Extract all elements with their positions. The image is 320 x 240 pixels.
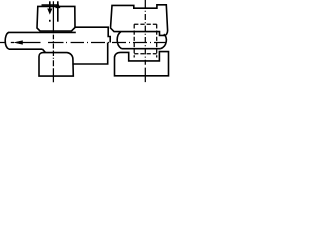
right figure: upper block (111, 5, 168, 36)
hidden rectangle (original bar outline) (134, 24, 157, 54)
upper die (left figure) (37, 6, 75, 31)
lead: lower die to right figure (72, 43, 107, 65)
down arrow head (48, 9, 52, 14)
workpiece bar top edge (8, 31, 76, 33)
right figure: vertical centerline (144, 0, 146, 82)
down arrow (49, 1, 51, 9)
barrel right curve (160, 34, 166, 49)
bar bottom edge (9, 48, 43, 50)
up arrow line (57, 1, 59, 21)
axis centerline with left arrow (0, 42, 5, 44)
axis dash-dot continuation (11, 42, 166, 44)
hidden rect right side (156, 24, 158, 57)
right figure: lower block (115, 52, 169, 76)
lower die (left figure) (39, 53, 73, 77)
axis arrow tail (20, 42, 41, 44)
bar rounded left end (5, 33, 9, 50)
down arrow dash (49, 20, 51, 22)
lead: upper die to right figure (75, 27, 110, 42)
hidden rect left side (133, 24, 135, 57)
vertical centerline (left figure) (52, 1, 54, 82)
force reference line (42, 4, 59, 6)
barrel bottom edge (122, 48, 161, 50)
up arrow head (56, 3, 60, 8)
right figure: upset barrel left curve (117, 32, 121, 49)
axis arrow head (14, 41, 22, 45)
bar-to-die transition flag (43, 49, 46, 52)
